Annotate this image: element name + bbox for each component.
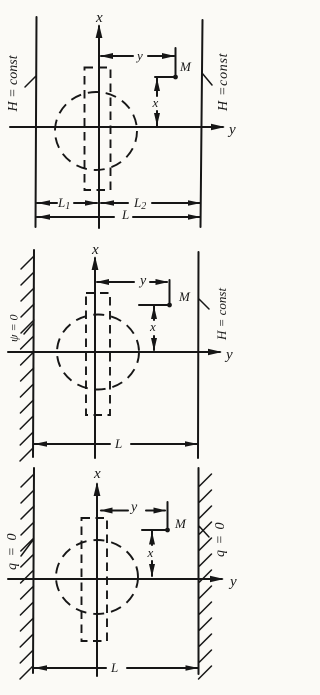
leader line left	[24, 323, 34, 334]
left wall (q=0, hatched)	[33, 468, 34, 673]
right wall (H=const boundary)	[201, 20, 203, 227]
y dimension line to M	[101, 55, 133, 57]
svg-text:y: y	[135, 48, 143, 63]
svg-text:y: y	[138, 274, 147, 289]
dashed circle (well contour)	[57, 315, 139, 390]
x-axis arrowhead	[96, 24, 103, 38]
L1 dimension line	[37, 202, 57, 204]
left wall (psi=0, hatched)	[33, 250, 34, 457]
dashed rectangle (slot)	[86, 293, 110, 415]
tick at M	[169, 280, 171, 305]
y dimension line to M	[97, 281, 134, 283]
y-axis arrowhead	[210, 576, 224, 582]
svg-text:y: y	[227, 122, 236, 138]
leader line right	[202, 73, 212, 85]
svg-text:x: x	[93, 466, 101, 482]
leader line right	[199, 299, 209, 309]
y-axis (horizontal)	[10, 126, 223, 128]
y-axis arrowhead	[211, 124, 225, 130]
svg-text:L: L	[114, 436, 122, 451]
svg-text:L: L	[121, 207, 129, 222]
tick at M	[167, 502, 169, 530]
svg-text:M: M	[178, 289, 191, 304]
svg-text:y: y	[228, 574, 237, 590]
svg-text:H =const: H =const	[216, 52, 231, 112]
x-axis (vertical)	[98, 26, 100, 228]
x dimension top bar	[139, 304, 170, 306]
x-axis arrowhead	[94, 482, 101, 496]
leader line left	[25, 76, 36, 87]
x dimension line	[151, 531, 153, 545]
svg-text:q = 0: q = 0	[5, 532, 20, 570]
svg-text:x: x	[147, 545, 154, 560]
svg-text:H = const: H = const	[6, 54, 21, 112]
y-axis arrowhead	[208, 349, 222, 355]
svg-text:ψ = 0: ψ = 0	[7, 314, 21, 342]
x dimension top bar	[155, 76, 176, 78]
right wall (H=const boundary)	[197, 252, 200, 458]
y dimension line to M	[101, 510, 128, 512]
dashed circle (well contour)	[56, 540, 138, 614]
svg-text:y: y	[129, 500, 138, 515]
x-axis (vertical)	[94, 258, 96, 458]
x dimension top bar	[142, 529, 168, 531]
svg-text:x: x	[91, 242, 99, 258]
L2 dimension line	[101, 202, 128, 204]
tick at M	[175, 48, 177, 77]
L dimension line	[37, 216, 114, 218]
x-axis (vertical)	[96, 484, 98, 676]
svg-text:M: M	[179, 59, 192, 74]
leader line left	[21, 540, 33, 556]
y-axis (horizontal)	[8, 578, 222, 580]
L dimension line	[34, 443, 110, 445]
dashed circle (well contour)	[55, 92, 137, 170]
svg-text:y: y	[224, 347, 233, 363]
point M dot	[165, 528, 170, 533]
x dimension line	[153, 306, 155, 320]
svg-text:x: x	[152, 95, 159, 110]
svg-text:x: x	[149, 319, 156, 334]
left wall (H=const boundary)	[36, 17, 37, 227]
hatching left wall	[20, 256, 34, 461]
hatching right wall	[199, 474, 212, 679]
leader line right	[199, 526, 209, 537]
dashed rectangle (slot)	[85, 68, 111, 191]
hatching left wall	[20, 474, 34, 679]
x dimension line	[156, 78, 158, 96]
y-axis (horizontal)	[8, 351, 220, 353]
dashed rectangle (slot)	[82, 518, 108, 641]
svg-text:q = 0: q = 0	[213, 522, 228, 557]
svg-text:x: x	[95, 10, 103, 26]
svg-text:L: L	[110, 660, 118, 675]
x-axis arrowhead	[92, 256, 99, 270]
svg-text:M: M	[174, 516, 187, 531]
right wall (q=0, hatched)	[198, 468, 200, 674]
svg-text:H = const: H = const	[214, 288, 229, 341]
point M dot	[173, 75, 178, 80]
L dimension line	[34, 667, 106, 669]
point M dot	[167, 303, 172, 308]
